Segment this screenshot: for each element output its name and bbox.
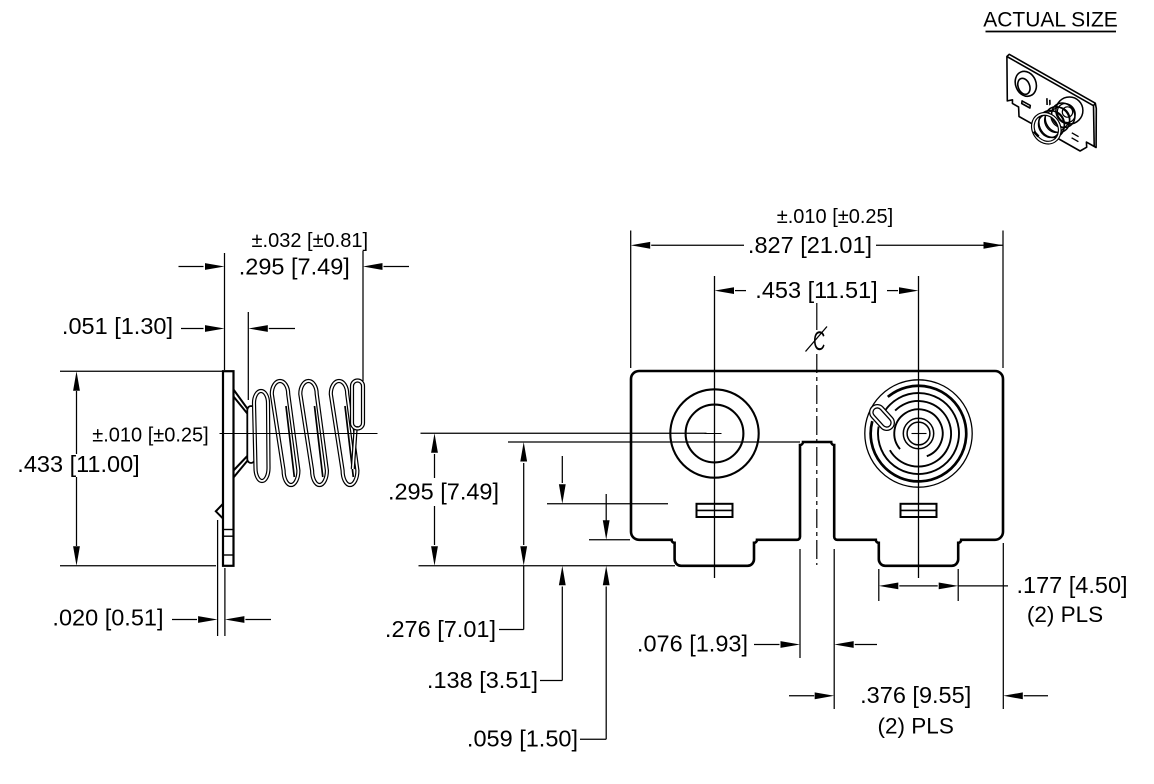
svg-text:.433 [11.00]: .433 [11.00] [17, 451, 139, 477]
isometric spring [1024, 90, 1089, 150]
extension line dimple top [547, 503, 668, 505]
dimension .059 [1.50] [467, 494, 610, 752]
svg-text:.076 [1.93]: .076 [1.93] [637, 631, 748, 657]
svg-text:.276 [7.01]: .276 [7.01] [385, 616, 496, 642]
left dimple [697, 504, 733, 517]
dimension .177 [4.50] tab width [879, 569, 1128, 627]
svg-text:.051 [1.30]: .051 [1.30] [62, 313, 173, 339]
centerline symbol [806, 326, 828, 356]
dimension .138 [3.51] [427, 456, 566, 693]
isometric actual-size part [1007, 54, 1096, 151]
extension line centerline level [421, 432, 707, 434]
right dimple [901, 504, 937, 517]
dimension .020 [0.51] thickness [52, 520, 271, 636]
side view spring end loop [352, 381, 363, 470]
side view plate fold lines [223, 530, 234, 556]
svg-text:(2) PLS: (2) PLS [1027, 602, 1103, 627]
heading ACTUAL SIZE [983, 9, 1118, 32]
dimension .453 [11.51] [715, 277, 919, 303]
front view spring coil [865, 380, 972, 487]
front view body outline [631, 371, 1003, 566]
extension lines side view top [225, 251, 364, 400]
svg-text:±.010 [±0.25]: ±.010 [±0.25] [92, 425, 208, 447]
dimension .295 [7.49] spring length [179, 230, 410, 279]
svg-text:.295 [7.49]: .295 [7.49] [239, 253, 350, 279]
svg-text:.376 [9.55]: .376 [9.55] [860, 682, 971, 708]
dimension .276 [7.01] [385, 442, 527, 642]
dimension .827 [21.01] width [631, 206, 1003, 368]
extension line slot top [508, 441, 800, 443]
spring vertical centerline [918, 276, 920, 578]
svg-text:.453 [11.51]: .453 [11.51] [755, 277, 877, 303]
svg-text:.177 [4.50]: .177 [4.50] [1017, 572, 1128, 598]
spring end hook [869, 404, 895, 431]
dimension .295 [7.49] front [388, 433, 499, 566]
svg-text:.059 [1.50]: .059 [1.50] [467, 726, 578, 752]
spring center tick [912, 433, 927, 435]
side view spring centerline [220, 433, 378, 435]
vertical centerline dash-dot [816, 303, 818, 565]
side view spring cone [234, 390, 255, 478]
svg-text:±.032 [±0.81]: ±.032 [±0.81] [252, 230, 368, 252]
side view plate [223, 371, 234, 566]
dimension .076 [1.93] slot [637, 549, 877, 709]
hole center tick [705, 433, 722, 435]
dimension .376 [9.55] [789, 543, 1048, 739]
side view lance barb [216, 504, 223, 519]
svg-text:.138 [3.51]: .138 [3.51] [427, 667, 538, 693]
dimension .051 [1.30] [62, 313, 295, 339]
front view hole circles [670, 389, 758, 477]
svg-text:±.010 [±0.25]: ±.010 [±0.25] [777, 206, 893, 228]
svg-text:.295 [7.49]: .295 [7.49] [388, 479, 499, 505]
hole vertical centerline [714, 276, 716, 578]
svg-text:.020 [0.51]: .020 [0.51] [52, 605, 163, 631]
extension line tab bottom [419, 565, 676, 567]
svg-text:ACTUAL SIZE: ACTUAL SIZE [983, 9, 1118, 32]
dimension .433 [11.00] height [17, 371, 222, 566]
extension line body bottom [589, 539, 630, 541]
side view spring coils [254, 381, 357, 485]
svg-text:.827 [21.01]: .827 [21.01] [748, 232, 872, 258]
svg-text:(2) PLS: (2) PLS [878, 714, 954, 739]
